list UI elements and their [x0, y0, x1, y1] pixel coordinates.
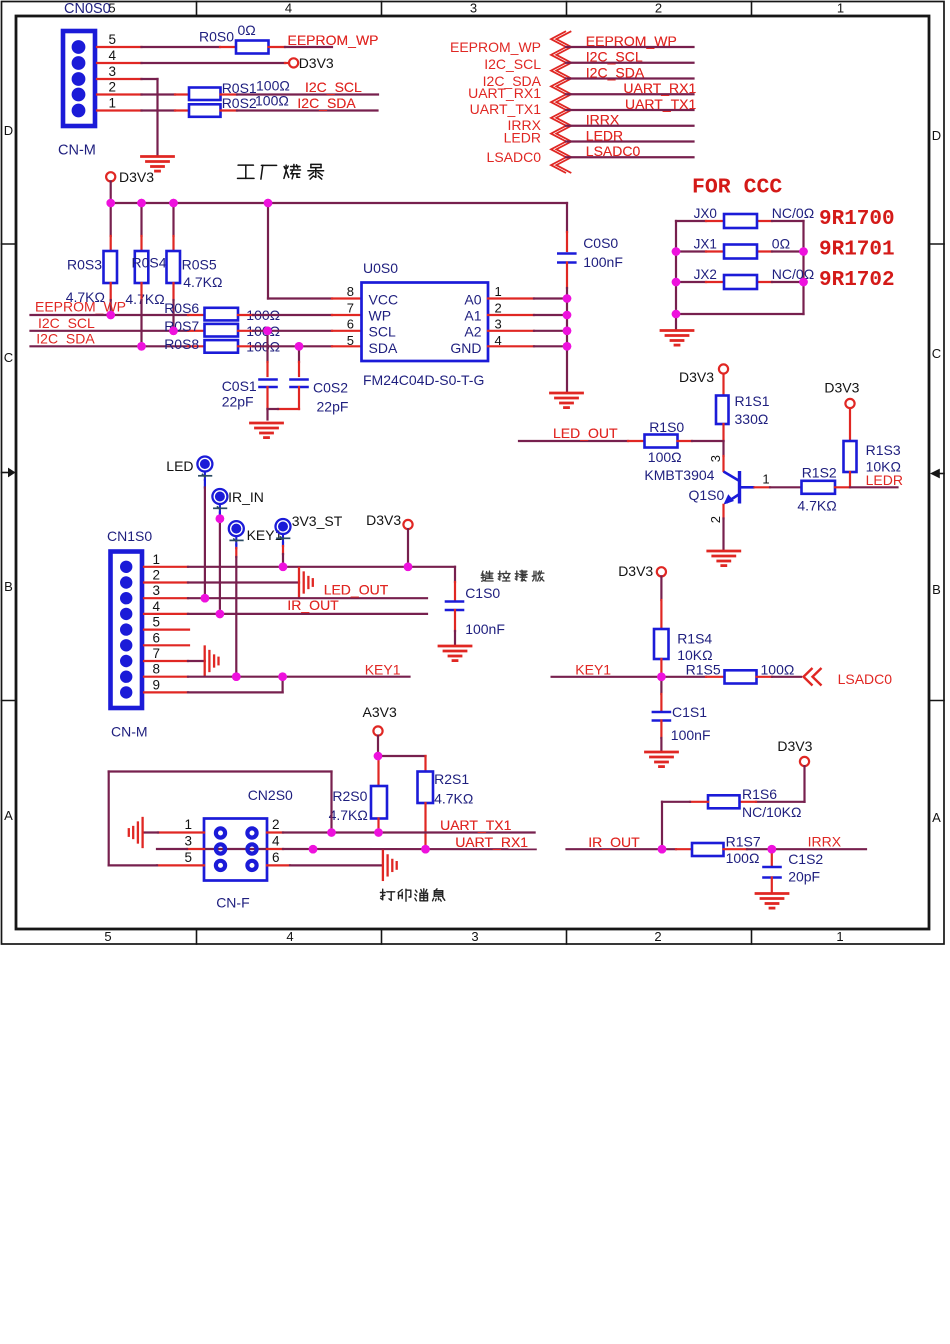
- svg-text:A1: A1: [464, 308, 481, 324]
- resistor R1S7: [692, 843, 724, 856]
- zone numbers top: [108, 1, 844, 16]
- IC U0S0 body: [362, 283, 489, 362]
- wire bus to R0S5: [172, 203, 174, 251]
- svg-text:22pF: 22pF: [317, 399, 349, 415]
- svg-text:SCL: SCL: [369, 324, 396, 340]
- svg-text:Q1S0: Q1S0: [689, 487, 725, 503]
- wire R0S8 to U0S0 SDA: [238, 345, 362, 347]
- junction JX2 left: [672, 278, 681, 287]
- wire D3V3 to R1S4: [660, 576, 662, 629]
- svg-text:CN-F: CN-F: [216, 895, 249, 911]
- svg-text:6: 6: [347, 317, 354, 332]
- wire CN2S0 pin2 UART_TX1 row: [267, 831, 535, 833]
- ground CN2S0 pin1: [129, 818, 143, 847]
- wire LED testpoint down: [204, 480, 206, 597]
- pin number 1 Q1S0: [762, 472, 769, 487]
- junction IR_OUT R1S6: [658, 845, 667, 854]
- capacitor C0S0 wire from bus: [566, 203, 568, 251]
- ground C1S2: [756, 894, 788, 909]
- svg-text:1: 1: [495, 284, 502, 299]
- pin names U0S0 left: [369, 292, 399, 357]
- svg-text:B: B: [932, 582, 941, 597]
- svg-text:GND: GND: [450, 340, 481, 356]
- net label LEDR: [866, 472, 903, 488]
- label R2S1: [434, 771, 469, 787]
- pin numbers CN0S0: [108, 32, 116, 111]
- svg-text:R0S0: R0S0: [199, 29, 234, 45]
- pin number 3 Q1S0: [708, 455, 723, 462]
- wire CN1S0 pin1 row: [144, 566, 455, 568]
- svg-text:100Ω: 100Ω: [648, 449, 682, 465]
- wire IR_IN testpoint down: [219, 513, 221, 614]
- label R1S0: [649, 419, 684, 435]
- svg-text:VCC: VCC: [369, 292, 399, 308]
- zone numbers bottom: [104, 929, 843, 944]
- resistor R0S8: [205, 340, 239, 353]
- harness wire I2C_SCL: [566, 62, 694, 64]
- wire R0S5 to I2C_SCL line: [172, 283, 174, 331]
- svg-text:LEDR: LEDR: [504, 130, 541, 146]
- svg-text:UART_RX1: UART_RX1: [468, 85, 541, 101]
- junction UART_RX1 mid: [309, 845, 318, 854]
- junction pin8 pin9 riser: [278, 672, 287, 681]
- junction JX1 right: [799, 247, 808, 256]
- svg-text:C0S1: C0S1: [222, 378, 257, 394]
- caption jian-kong-jie-shou (key receive): [481, 570, 544, 581]
- harness net label LSADC0: [586, 143, 641, 159]
- svg-text:7: 7: [152, 646, 160, 661]
- svg-text:D3V3: D3V3: [777, 738, 812, 754]
- svg-text:LSADC0: LSADC0: [487, 149, 542, 165]
- svg-text:8: 8: [347, 284, 354, 299]
- label R0S5: [182, 257, 217, 273]
- svg-text:D3V3: D3V3: [119, 169, 154, 185]
- wire R1S2 to LEDR node: [835, 486, 850, 488]
- testpoint KEY1: [229, 521, 283, 545]
- junction I2C_SCL C0S1: [263, 327, 272, 336]
- svg-text:2: 2: [495, 301, 502, 316]
- ground C1S0: [439, 646, 471, 661]
- svg-text:CN0S0: CN0S0: [64, 1, 111, 17]
- label C0S2: [313, 380, 348, 396]
- svg-text:NC/0Ω: NC/0Ω: [772, 205, 814, 221]
- svg-text:2: 2: [654, 929, 661, 944]
- label R1S5: [686, 662, 721, 678]
- svg-text:1: 1: [108, 96, 116, 111]
- svg-text:D3V3: D3V3: [366, 512, 401, 528]
- svg-text:4.7KΩ: 4.7KΩ: [329, 807, 368, 823]
- svg-text:R0S4: R0S4: [132, 255, 167, 271]
- svg-text:IRRX: IRRX: [586, 112, 620, 128]
- svg-text:FOR CCC: FOR CCC: [692, 176, 782, 200]
- value NC/10Kohm R1S6: [742, 804, 802, 820]
- wire bus to R0S3: [110, 203, 112, 251]
- harness wire EEPROM_WP: [566, 46, 694, 48]
- wire 3V3_ST testpoint down: [282, 543, 284, 567]
- pin numbers CN2S0 right: [272, 817, 280, 865]
- label R2S0: [332, 788, 367, 804]
- svg-text:2: 2: [708, 516, 723, 523]
- resistor JX0: [724, 214, 757, 228]
- svg-text:3: 3: [471, 929, 478, 944]
- wire CN1S0 pin7 row: [144, 660, 205, 662]
- capacitor C1S2 wire: [771, 849, 773, 865]
- value 100ohm R1S5: [761, 662, 795, 678]
- svg-text:C0S2: C0S2: [313, 380, 348, 396]
- resistor JX1: [724, 245, 757, 259]
- junction I2C_SCL R0S5: [169, 327, 178, 336]
- label R0S7: [164, 318, 199, 334]
- ground Q1S0 emitter: [708, 551, 740, 566]
- wire collector node to Q1S0 pin3: [722, 441, 724, 471]
- harness zigzag chevrons: [551, 31, 571, 173]
- svg-text:C: C: [932, 346, 941, 361]
- label R1S2: [802, 465, 837, 481]
- svg-text:100nF: 100nF: [671, 727, 711, 743]
- svg-text:3V3_ST: 3V3_ST: [292, 513, 343, 529]
- wire JX2 row: [676, 281, 804, 283]
- wire CN1S0 pin9 row: [144, 677, 283, 693]
- svg-text:A3V3: A3V3: [363, 704, 397, 720]
- svg-text:B: B: [4, 579, 13, 594]
- wire R0S7 to U0S0 SCL: [238, 330, 362, 332]
- label R1S1: [735, 393, 770, 409]
- ground CN0S0 pin3: [142, 157, 174, 172]
- wire bus riser to U0S0 VCC pin8: [268, 203, 362, 299]
- wire CN2S0 pin3 stub: [157, 848, 204, 850]
- svg-text:UART_RX1: UART_RX1: [623, 80, 696, 96]
- svg-text:UART_RX1: UART_RX1: [455, 834, 528, 850]
- capacitor C1S2: [764, 867, 781, 878]
- junction A3V3 branch: [374, 752, 383, 761]
- svg-text:6: 6: [152, 630, 160, 645]
- junction A1 rail: [563, 311, 572, 320]
- junction KEY1 R1S4 C1S1: [657, 673, 666, 682]
- svg-text:8: 8: [152, 662, 160, 677]
- svg-text:3: 3: [495, 317, 502, 332]
- resistor R2S0: [371, 786, 387, 819]
- transistor Q1S0: [723, 471, 754, 505]
- svg-text:R1S5: R1S5: [686, 662, 721, 678]
- wire U0S0 pin2 A1: [488, 314, 567, 316]
- svg-text:I2C_SDA: I2C_SDA: [297, 95, 356, 111]
- wire CN1S0 pin4 row IR_OUT: [144, 613, 427, 615]
- label R1S3: [866, 442, 901, 458]
- resistor R1S5: [725, 670, 757, 683]
- net label LED_OUT left: [324, 582, 389, 598]
- svg-text:LED_OUT: LED_OUT: [553, 425, 618, 441]
- label 9R1702: [819, 269, 895, 292]
- svg-text:5: 5: [152, 615, 160, 630]
- svg-text:LED: LED: [166, 458, 193, 474]
- harness wire LSADC0: [566, 156, 694, 158]
- resistor R0S3: [104, 251, 118, 283]
- net label EEPROM_WP top: [288, 32, 379, 48]
- wire R0S6 to U0S0 WP: [238, 314, 362, 316]
- svg-text:3: 3: [108, 64, 116, 79]
- power port D3V3 R1S3: [824, 380, 859, 409]
- resistor R0S4: [135, 251, 149, 283]
- svg-text:JX1: JX1: [694, 237, 717, 252]
- wire R1S5 to LSADC0: [757, 676, 802, 678]
- label JX1: [694, 237, 717, 252]
- junction GND rail: [563, 342, 572, 351]
- svg-text:5: 5: [347, 333, 354, 348]
- wire JX left rail: [675, 221, 677, 314]
- svg-text:C1S1: C1S1: [672, 704, 707, 720]
- wire LED_OUT to R1S0: [519, 440, 645, 442]
- svg-text:D3V3: D3V3: [824, 380, 859, 396]
- svg-text:I2C_SCL: I2C_SCL: [586, 49, 643, 65]
- svg-text:R2S0: R2S0: [332, 788, 367, 804]
- label CN-F: [216, 895, 249, 911]
- svg-text:NC/10KΩ: NC/10KΩ: [742, 804, 802, 820]
- right edge center arrow: [930, 469, 944, 479]
- svg-text:EEPROM_WP: EEPROM_WP: [288, 32, 379, 48]
- capacitor C0S1: [260, 380, 277, 388]
- value 22pF C0S2: [317, 399, 349, 415]
- svg-text:I2C_SCL: I2C_SCL: [305, 79, 362, 95]
- junction pin3 LED testpoint: [201, 594, 210, 603]
- wire CN0S0 pin1 to R0S2: [97, 109, 189, 111]
- svg-text:6: 6: [272, 850, 280, 865]
- value 22pF C0S1: [222, 394, 254, 410]
- svg-text:KEY1: KEY1: [575, 662, 611, 678]
- wire D3V3 to pin1 row: [407, 529, 409, 567]
- junction bus at R0S5: [169, 199, 178, 208]
- label C1S1: [672, 704, 707, 720]
- svg-text:9: 9: [152, 677, 160, 692]
- wire C1S0 to ground: [454, 610, 456, 644]
- svg-text:4.7KΩ: 4.7KΩ: [797, 498, 836, 514]
- capacitor C0S2: [291, 380, 308, 388]
- power port D3V3 bus: [106, 169, 154, 185]
- capacitor C1S0 wire from pin1 row: [454, 567, 456, 600]
- harness net label UART_RX1: [623, 80, 696, 96]
- svg-text:2: 2: [272, 817, 280, 832]
- sheet border frame: [2, 2, 945, 945]
- pin numbers CN1S0: [152, 552, 160, 693]
- wire CN1S0 pin3 row LED_OUT: [144, 597, 427, 599]
- svg-text:NC/0Ω: NC/0Ω: [772, 266, 814, 282]
- value 4.7Kohm R1S2: [797, 498, 836, 514]
- wire C0S0 to rail: [566, 263, 568, 299]
- svg-text:100Ω: 100Ω: [256, 78, 290, 94]
- svg-text:9R1701: 9R1701: [819, 239, 895, 262]
- value 100nF C0S0: [583, 254, 623, 270]
- power port D3V3 pin4: [289, 55, 334, 71]
- svg-text:1: 1: [836, 929, 843, 944]
- svg-text:R1S6: R1S6: [742, 786, 777, 802]
- svg-text:2: 2: [108, 80, 116, 95]
- junction pin8 KEY1 testpoint: [232, 672, 241, 681]
- harness net label I2C_SDA: [586, 64, 645, 80]
- wire CN0S0 pin3 to ground: [97, 79, 158, 155]
- resistor R1S2: [802, 481, 836, 494]
- svg-text:0Ω: 0Ω: [238, 22, 256, 38]
- svg-text:JX2: JX2: [694, 267, 717, 282]
- value 100nF C1S1: [671, 727, 711, 743]
- svg-text:20pF: 20pF: [788, 869, 820, 885]
- wire KEY1 testpoint down: [235, 545, 237, 677]
- wire I2C_SDA to R0S8: [31, 345, 205, 347]
- svg-text:WP: WP: [369, 308, 392, 324]
- wire KEY1 right segment: [552, 676, 725, 678]
- wire R1S4 to KEY1 node: [660, 659, 662, 677]
- caption da-yin-xiao-xi (print message): [380, 889, 444, 901]
- svg-text:4: 4: [108, 48, 116, 63]
- value 100ohm R0S7: [246, 323, 280, 339]
- wire CN0S0 pin2 to R0S1: [97, 93, 189, 95]
- label R1S4: [677, 631, 712, 647]
- svg-text:0Ω: 0Ω: [772, 236, 790, 252]
- svg-text:R0S3: R0S3: [67, 257, 102, 273]
- junction JX1 left: [672, 247, 681, 256]
- junction UART_TX1 pin5 loop: [327, 828, 336, 837]
- svg-text:JX0: JX0: [694, 206, 717, 221]
- svg-text:7: 7: [347, 301, 354, 316]
- value JX1: [772, 236, 790, 252]
- svg-text:R1S1: R1S1: [735, 393, 770, 409]
- net label I2C_SDA left: [36, 331, 95, 347]
- svg-text:4: 4: [285, 1, 292, 16]
- wire IR_OUT row: [567, 848, 693, 850]
- value 100nF C1S0: [465, 621, 505, 637]
- power port D3V3 R1S6: [777, 738, 812, 766]
- label R0S6: [164, 300, 199, 316]
- junction bus at R0S4: [137, 199, 146, 208]
- svg-text:5: 5: [108, 32, 116, 47]
- resistor R0S5: [167, 251, 181, 283]
- harness wire UART_RX1: [566, 93, 694, 95]
- svg-text:9R1700: 9R1700: [819, 208, 895, 231]
- wire CN1S0 pin8 row KEY1: [144, 676, 410, 678]
- resistor R1S1: [716, 396, 729, 425]
- harness net label LEDR: [586, 127, 623, 143]
- ground C1S1: [646, 752, 678, 767]
- wire R1S0 to collector node: [678, 424, 724, 441]
- wire D3V3 to R1S1: [722, 374, 724, 396]
- resistor R1S6: [708, 795, 740, 808]
- zone letters left: [4, 123, 13, 823]
- svg-text:R1S0: R1S0: [649, 419, 684, 435]
- svg-text:1: 1: [762, 472, 769, 487]
- svg-text:D: D: [932, 128, 941, 143]
- ground CN1S0 pin2: [299, 568, 313, 597]
- svg-text:CN-M: CN-M: [111, 724, 148, 740]
- net label I2C_SCL top: [305, 79, 362, 95]
- svg-text:100Ω: 100Ω: [726, 850, 760, 866]
- svg-text:R0S6: R0S6: [164, 300, 199, 316]
- pin numbers CN2S0 left: [184, 817, 192, 865]
- svg-text:5: 5: [184, 850, 192, 865]
- harness wire LEDR: [566, 140, 694, 142]
- power port A3V3: [363, 704, 397, 736]
- label JX2: [694, 267, 717, 282]
- svg-text:LED_OUT: LED_OUT: [324, 582, 389, 598]
- net label LED_OUT right: [553, 425, 618, 441]
- svg-text:R1S7: R1S7: [726, 834, 761, 850]
- label FM24C04D-S0-T-G: [363, 372, 484, 388]
- svg-text:4.7KΩ: 4.7KΩ: [125, 291, 164, 307]
- svg-text:R0S2: R0S2: [222, 95, 257, 111]
- label CN2S0: [248, 787, 293, 803]
- wire R0S4 to I2C_SDA line: [140, 283, 142, 346]
- wire R0S3 to EEPROM_WP line: [110, 283, 112, 315]
- junction pin4 IR_IN testpoint: [216, 610, 225, 619]
- wire CN2S0 pin6 to ground: [267, 864, 383, 866]
- svg-text:4.7KΩ: 4.7KΩ: [183, 274, 222, 290]
- svg-text:D3V3: D3V3: [299, 55, 334, 71]
- svg-text:R2S1: R2S1: [434, 771, 469, 787]
- svg-text:CN2S0: CN2S0: [248, 787, 293, 803]
- svg-text:3: 3: [470, 1, 477, 16]
- label R0S1: [222, 80, 257, 96]
- value 10Kohm R1S3: [866, 459, 901, 475]
- resistor R0S7: [205, 324, 239, 337]
- junction A2 rail: [563, 327, 572, 336]
- wire CN1S0 pin6 stub: [144, 644, 189, 646]
- wire D3V3 stem to bus: [110, 181, 112, 203]
- wire CN2S0 pin4 UART_RX1 row: [267, 848, 536, 850]
- junction EEPROM_WP R0S3: [106, 311, 115, 320]
- svg-text:100Ω: 100Ω: [761, 662, 795, 678]
- capacitor C1S1 wire from KEY1: [660, 677, 662, 710]
- wire CN2S0 pin5 loop to UART_TX1: [109, 772, 332, 866]
- svg-text:3: 3: [184, 834, 192, 849]
- wire A3V3 to R2S0: [377, 736, 380, 786]
- svg-text:A: A: [932, 810, 941, 825]
- svg-text:D3V3: D3V3: [618, 563, 653, 579]
- svg-text:4: 4: [152, 599, 160, 614]
- connector CN1S0 body: [111, 552, 143, 709]
- label C0S0: [583, 235, 618, 251]
- connector CN0S0 body: [63, 31, 95, 126]
- wire CN1S0 pin5 stub: [144, 628, 189, 630]
- junction IR_IN stem: [216, 514, 225, 523]
- wire bus to R0S4: [140, 203, 142, 251]
- wire CN2S0 pin1 to ground: [143, 831, 204, 833]
- resistor R1S4: [654, 629, 669, 659]
- svg-text:UART_TX1: UART_TX1: [470, 101, 542, 117]
- testpoint IR_IN: [212, 489, 263, 513]
- svg-text:1: 1: [184, 817, 192, 832]
- label R0S3: [67, 257, 102, 273]
- pin numbers U0S0 right: [495, 284, 502, 348]
- harness net label IRRX: [586, 112, 620, 128]
- svg-text:100Ω: 100Ω: [255, 93, 289, 109]
- pin numbers U0S0 left: [347, 284, 354, 348]
- harness wire UART_TX1: [566, 109, 694, 111]
- svg-text:4.7KΩ: 4.7KΩ: [434, 791, 473, 807]
- capacitor C1S1: [653, 712, 670, 721]
- svg-text:IRRX: IRRX: [808, 834, 842, 850]
- wire C0S1 C0S2 to ground: [268, 387, 300, 420]
- capacitor C0S1 wire from I2C_SCL: [266, 331, 268, 376]
- svg-text:R0S8: R0S8: [164, 336, 199, 352]
- net label IR_OUT left: [287, 597, 339, 613]
- label R0S8: [164, 336, 199, 352]
- wire A3V3 branch to R2S1: [378, 756, 426, 772]
- wire JX right rail: [802, 221, 804, 314]
- junction JX bottom left: [672, 310, 681, 319]
- svg-text:D: D: [4, 123, 13, 138]
- ground JX rail: [661, 331, 693, 346]
- svg-text:LEDR: LEDR: [866, 472, 903, 488]
- connector CN0S0 label CN-M: [58, 143, 96, 159]
- wire C1S1 to ground: [660, 721, 662, 751]
- offsheet chevron LSADC0: [804, 668, 822, 686]
